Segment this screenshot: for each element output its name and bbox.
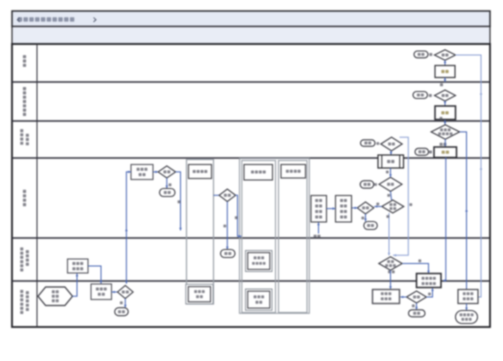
wire 发布招聘信息 right to corridor junction	[88, 266, 101, 284]
decision 是否总监及以上 lane3	[431, 125, 460, 140]
process 审批 lane1	[435, 66, 455, 78]
wire rect1 to rect2	[327, 208, 336, 210]
process 电话面试 box lane6 (inside container)	[186, 284, 213, 304]
phase container outer 现场面试 (silver)	[240, 159, 310, 314]
terminator 淘汰 + 否 left of 合格	[360, 181, 374, 189]
predefined process 预约面试	[378, 155, 404, 168]
process 上级经理确认结果 (bold, straddles lane5/6)	[417, 274, 442, 288]
process 发布招聘信息	[68, 259, 89, 273]
wire lane1 decision to 审批	[444, 60, 446, 65]
lane label 分公司行政/前台文员	[20, 290, 23, 293]
wire 是否总监 right branch down to 发放录用通知 top, label 是	[460, 132, 467, 290]
label 否 lane3 left	[376, 142, 379, 145]
wire 是 right into 集体面试 container	[236, 195, 242, 236]
wire 是 right up into 上级经理确认结果	[427, 288, 433, 297]
wire rect2 to 合格 callback	[352, 207, 358, 209]
wire 合格 down to 需要复试, label 是	[391, 191, 392, 200]
decision 同意? lane1	[435, 50, 456, 60]
wire 审批 lane3 down to 上级经理确认结果	[443, 158, 446, 281]
lane divider y=82	[12, 81, 490, 83]
decision 合格? lane6	[118, 286, 134, 299]
lane divider y=281	[12, 280, 490, 282]
wire 否 down to 淘汰 lane5	[226, 202, 228, 250]
terminator 结束 lane6	[409, 310, 426, 317]
wire 合格 yes down to 电话面试 container, label 是	[176, 172, 181, 231]
wire 是否资深 down into 自动发起调查	[390, 270, 392, 289]
decision 合格? after 预约面试, label 是 above	[379, 177, 402, 191]
wire lane1 decision right down to 发放录用通知 (far right long drop)	[456, 55, 482, 297]
label 否 + terminator 淘汰 below	[166, 178, 168, 189]
decision 合格? lane6 right	[407, 291, 427, 303]
wire 需要复试 down (light blue) to 是否资深岗位, label 是	[388, 213, 390, 256]
wire decision left into 自动发起调查	[400, 296, 406, 298]
lane divider y=121	[12, 120, 490, 122]
terminator 淘汰 lane6	[115, 308, 129, 316]
wire decision to 审批 lane2	[444, 101, 446, 106]
swimlane body frame	[12, 44, 490, 327]
lane divider y=158	[12, 157, 490, 159]
label 否 lane1	[429, 53, 432, 56]
phase container 电话面试 (silver)	[187, 160, 214, 305]
wire 否 down to 结束	[416, 303, 418, 310]
phase container 上岗面试 (silver)	[279, 161, 308, 313]
terminator 淘汰 lane5 (from phone interview)	[221, 250, 236, 258]
process 发放录用通知	[458, 290, 478, 304]
process 自动发起调查	[373, 290, 400, 304]
title text 招聘过程管理流程图	[17, 17, 96, 22]
label 否 lane3	[429, 151, 432, 154]
terminator 淘汰 lane3	[361, 140, 376, 147]
terminator 结束 lane1	[414, 51, 428, 58]
wire hexagon up into 发布招聘信息	[73, 273, 78, 296]
process 审批 lane3 (bold)	[434, 147, 457, 158]
process 集体面试 box lane6 (inside container)	[246, 289, 273, 310]
decision 合格? lane4 screening	[158, 166, 176, 178]
wire 是否资深 否 right down into 上级经理确认结果, label 否	[402, 264, 428, 274]
decision 需要复试?	[382, 200, 404, 213]
wire 发放录用通知 down to terminator	[466, 304, 468, 311]
terminator 结束 lane2	[413, 92, 428, 99]
decision 合适? lane3	[381, 137, 402, 151]
wire 合适 decision down into 预约面试	[390, 151, 392, 155]
wire 通过 up into 主管确认	[318, 222, 320, 233]
lane label column separator	[36, 44, 38, 327]
decision 同意? lane2	[435, 90, 456, 101]
wire 否 down to 淘汰	[365, 214, 367, 222]
wire 电话面试 container to outcome decision	[214, 194, 220, 196]
terminator 结束 lane3	[415, 148, 429, 155]
process 筛选简历 lane4	[131, 165, 153, 180]
wire lane3 decision up to 审批 lane2, label 是	[444, 120, 446, 126]
wire 筛选简历 to 合格 decision	[153, 171, 158, 173]
wire from lane2 up into 审批 lane1, label 是	[444, 78, 446, 83]
wire 否 down to 淘汰 lane6	[124, 299, 126, 308]
label 同意 below decision	[440, 143, 443, 146]
process 主管确认备选人员	[311, 196, 327, 223]
decision 是否资深岗位	[379, 257, 402, 270]
phase title box 集体面试	[244, 165, 273, 181]
hexagon 申报招聘需求	[38, 287, 73, 306]
wire up from lane6 decision into 筛选简历, junction with 发布招聘信息	[126, 172, 131, 284]
wire 合适 decision loop to 是否资深岗位 (light blue)	[393, 137, 408, 255]
label 否 lane2	[429, 94, 432, 97]
process 审批 lane2 (bold)	[435, 106, 456, 120]
process 集体面试(可选) lane5	[246, 251, 273, 272]
label 资深 below decision	[388, 270, 391, 273]
process 筛选简历 lane6	[91, 284, 112, 300]
lane label 各事业部	[23, 190, 26, 193]
decision 合格? callback	[357, 202, 374, 214]
lane label 招聘专员/中心行政	[20, 247, 23, 250]
wire decision to 筛选简历 lane6	[112, 291, 118, 293]
phase container 集体面试 (silver)	[242, 161, 276, 313]
process 电话确认面试时间	[336, 196, 352, 223]
wire 需要复试 否 left to 合格 decision	[374, 206, 382, 208]
decision 合格? phone interview	[219, 189, 236, 202]
lane label 事业部分管副总	[23, 87, 26, 90]
lane label 总经理	[23, 55, 26, 58]
phase title box 电话面试	[189, 165, 212, 179]
phase title box 上岗面试	[281, 165, 306, 179]
lane divider y=238	[12, 237, 490, 239]
wire decision down to 审批 lane3	[444, 139, 446, 147]
sub header bar	[12, 27, 490, 45]
lane label 人力资源部经理	[20, 129, 23, 132]
title bar	[12, 11, 490, 27]
terminator 录用入职办理手续	[456, 311, 478, 324]
